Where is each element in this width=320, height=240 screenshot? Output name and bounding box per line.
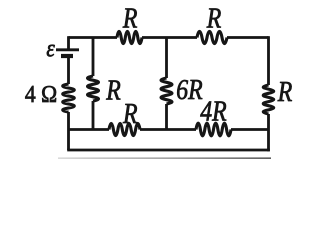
svg-text:ε: ε: [46, 35, 55, 63]
resistor 4R (bottom horizontal): [196, 123, 231, 136]
wire: middle-left branch bottom lead: [92, 101, 95, 130]
wire: battery top stub: [67, 36, 70, 49]
svg-text:6R: 6R: [176, 74, 203, 105]
svg-text:R: R: [277, 76, 293, 107]
wire: 6R branch bottom lead: [165, 104, 168, 130]
wire: inner bottom right segment: [231, 128, 269, 131]
wire: right side down to outer bottom wire: [267, 114, 270, 151]
resistor R (top right): [197, 31, 227, 43]
wire: top wire left segment: [69, 36, 118, 39]
svg-text:R: R: [122, 98, 138, 129]
resistor R (middle-left vertical): [88, 76, 99, 101]
resistor R (bottom horizontal): [109, 123, 140, 135]
circuit schematic: [0, 0, 318, 167]
svg-text:R: R: [206, 3, 222, 34]
wire: inner bottom middle segment: [140, 128, 196, 131]
svg-text:R: R: [105, 75, 121, 106]
resistor R (right vertical): [263, 85, 274, 114]
wire: top wire middle segment: [142, 36, 197, 39]
svg-text:4 Ω: 4 Ω: [25, 81, 57, 107]
svg-text:4R: 4R: [200, 96, 227, 127]
wire: 6R branch top lead: [165, 38, 168, 79]
wire: right side top lead: [267, 36, 270, 85]
resistor R (top left): [117, 31, 142, 43]
resistor 6R (vertical): [161, 78, 172, 104]
svg-text:R: R: [122, 3, 138, 34]
scan artifact: faint gray rule below figure: [58, 157, 271, 159]
wire: battery to 4-ohm resistor: [67, 57, 70, 84]
wire: outer bottom return wire: [67, 149, 270, 152]
wire: middle-left branch top lead: [92, 38, 95, 77]
wire: left side down to outer bottom wire: [67, 112, 70, 150]
resistor 4 ohm (vertical): [63, 84, 75, 112]
wire: top wire right segment: [227, 36, 269, 39]
battery cell: short thick negative plate: [61, 54, 73, 58]
battery cell: long positive plate: [56, 48, 79, 51]
wire: inner bottom left segment: [69, 128, 110, 131]
